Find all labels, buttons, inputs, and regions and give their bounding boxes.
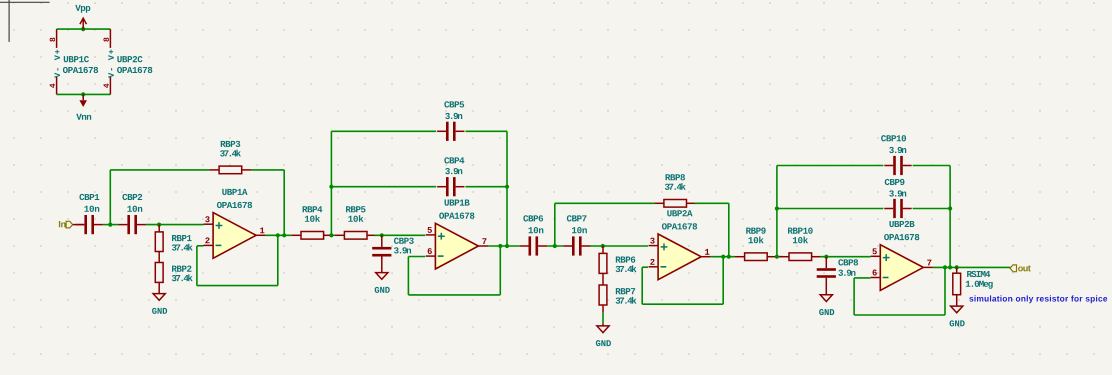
wire UBP1B output: [488, 245, 520, 247]
wire node A up to RBP3: [110, 170, 209, 225]
label UBP1B: [445, 200, 470, 206]
node O (RBP9/RBP10/feedback): [775, 255, 779, 259]
pin 5 (+ input of UBP2B): [871, 248, 881, 256]
wire CBP6 to CBP7: [547, 245, 563, 247]
pin CBP3 bottom: [381, 257, 383, 273]
node P (CBP8 tap): [824, 255, 828, 259]
pin RBP6 top: [602, 246, 604, 253]
op-amp power unit UBP1C pin 4 (V-): [50, 68, 60, 94]
node A (CBP1/CBP2/RBP3): [108, 223, 112, 227]
value OPA1678 (UBP1C): [63, 67, 98, 73]
label GND (CBP3): [375, 287, 390, 293]
wire node K up to RBP8: [555, 203, 654, 246]
pin 6 (- input of UBP2B): [871, 270, 881, 278]
node C (output UBP1A / loop): [276, 233, 280, 237]
ground (RSIM4): [951, 306, 963, 313]
label RBP5: [346, 206, 366, 212]
label UBP1A: [222, 189, 247, 195]
wire UBP2A output: [711, 256, 735, 258]
capacitor CBP10 3.9n: [884, 156, 911, 175]
pin 1 (output of UBP1A): [256, 228, 266, 236]
value 10n (CBP6): [529, 227, 544, 233]
node Vpp junction: [81, 27, 85, 31]
pin 1 (output of UBP2A): [701, 249, 711, 257]
wire CBP9 row left: [777, 208, 884, 210]
op-amp UBP2A: [658, 234, 701, 280]
value 10k (RBP4): [305, 215, 320, 222]
wire RBP7 to GND: [602, 313, 604, 324]
wire CBP5 row right: [466, 131, 508, 246]
value OPA1678 (UBP1B): [439, 213, 474, 219]
pin 7 (output of UBP2B): [923, 260, 933, 268]
label UBP1C: [64, 56, 89, 62]
wire UBP2A inverting loop: [642, 257, 723, 305]
label RBP4: [303, 206, 323, 212]
note simulation only resistor for spice: [969, 295, 1107, 303]
value 3.9n (CBP3): [394, 247, 411, 253]
label CBP8: [838, 259, 858, 265]
label CBP9: [885, 179, 905, 185]
value OPA1678 (UBP1A): [217, 202, 252, 208]
pin 7 (output of UBP1B): [478, 238, 488, 246]
power flag Vpp: [80, 18, 87, 29]
capacitor CBP9 3.9n: [884, 199, 911, 218]
op-amp UBP2B: [880, 245, 923, 291]
wire V+ rail: [57, 28, 111, 30]
label Vnn: [76, 114, 91, 120]
global label In: [59, 221, 73, 228]
wire CBP2 to op-amp UBP1A: [146, 224, 204, 226]
pin RBP2 bottom: [158, 282, 160, 293]
wire RBP6 to RBP7: [602, 273, 604, 285]
value 37.4k (RBP1): [172, 244, 193, 251]
label GND (RSIM4): [950, 320, 965, 326]
wire In to CBP1: [73, 224, 84, 226]
wire CBP4 row left: [331, 186, 436, 188]
value 10n (CBP1): [84, 206, 99, 212]
value 10k (RBP5): [348, 215, 363, 222]
pin 3 (+ input of UBP1A): [204, 216, 214, 224]
node T (output / feedback): [948, 265, 952, 269]
op-amp power unit UBP2C pin 4 (V-): [104, 68, 114, 94]
node M (output UBP2A / loop): [721, 255, 725, 259]
node K (RBP8 tap): [553, 244, 557, 248]
resistor RSIM4 1.0Meg: [953, 273, 961, 295]
node U (output / RSIM4): [955, 265, 959, 269]
wire UBP1B inverting loop: [408, 246, 500, 295]
wire UBP1A inverting loop: [197, 235, 278, 285]
label CBP2: [122, 194, 142, 200]
value 3.9n (CBP4): [445, 168, 462, 174]
pin 6 (- input of UBP1B): [426, 248, 436, 256]
wire node O up (feedback riser): [776, 166, 778, 257]
wire RBP9 to RBP10: [777, 256, 783, 258]
ground (RBP6/RBP7): [597, 326, 609, 333]
resistor RBP3 37.4k: [209, 166, 251, 174]
pin 5 (+ input of UBP1B): [426, 227, 436, 235]
wire CBP7 to op-amp UBP2A: [590, 245, 648, 247]
resistor RBP2 37.4k: [155, 263, 163, 283]
ground (CBP3): [376, 273, 388, 280]
wire CBP10 row left: [777, 165, 884, 167]
value 3.9n (CBP10): [889, 147, 906, 153]
pin RBP1 top: [158, 225, 160, 232]
sheet origin marker: [0, 0, 50, 42]
resistor RBP7 37.4k: [599, 285, 607, 305]
label CBP5: [444, 101, 464, 107]
resistor RBP6 37.4k: [599, 253, 607, 273]
wire CBP10 row right: [913, 166, 951, 268]
value 3.9n (CBP8): [838, 270, 855, 276]
op-amp power unit U BP1C pin 8 (V+): [50, 29, 60, 60]
value 10k (RBP10): [793, 237, 808, 244]
capacitor CBP5 3.9n: [437, 122, 464, 141]
node S (output / loop): [943, 265, 947, 269]
resistor RBP4 10k: [291, 232, 333, 240]
wire UBP2B output: [933, 266, 1010, 268]
label UBP2A: [667, 210, 692, 216]
node L (RBP6 tap): [601, 244, 605, 248]
op-amp UBP1A: [213, 213, 256, 259]
label CBP3: [394, 238, 414, 244]
wire CBP9 row right: [913, 208, 951, 210]
node R (CBP9 row right): [948, 206, 952, 210]
wire UBP1A output: [266, 234, 292, 236]
label RBP7: [616, 288, 635, 294]
value 37.4k (RBP2): [172, 274, 193, 281]
capacitor CBP6 10n: [520, 236, 547, 255]
label UBP2C: [117, 56, 142, 62]
label RBP6: [616, 256, 635, 262]
wire RBP10 to op-amp UBP2B: [820, 256, 871, 258]
power flag Vnn: [79, 94, 87, 107]
pin 2 (- input of UBP2A): [649, 259, 659, 267]
ground (RBP1/RBP2): [153, 294, 165, 301]
pin RSIM4 top: [956, 267, 958, 273]
op-amp power unit UBP2C pin 8 (V+): [103, 29, 113, 60]
value 37.4k (RBP8): [665, 183, 686, 190]
node Q (CBP9 row left): [775, 206, 779, 210]
resistor RBP10 10k: [779, 253, 821, 261]
wire CBP1 to CBP2: [103, 224, 119, 226]
value OPA1678 (UBP2C): [117, 67, 152, 73]
resistor RBP1 37.4k: [155, 232, 163, 252]
wire RBP1 to RBP2: [158, 252, 160, 263]
wire V- rail: [57, 93, 111, 95]
label RBP3: [221, 141, 241, 147]
resistor RBP8 37.4k: [654, 200, 696, 208]
wire RBP4 to RBP5: [331, 234, 334, 236]
wire RBP5 to op-amp UBP1B: [374, 234, 425, 236]
value 3.9n (CBP5): [445, 113, 462, 119]
label CBP1: [79, 194, 99, 200]
value 10n (CBP2): [127, 206, 142, 212]
label CBP7: [567, 215, 587, 221]
node J (output UBP1B / feedback): [505, 244, 509, 248]
label Vpp: [75, 5, 90, 13]
pin RBP7 bottom: [602, 305, 604, 313]
resistor RBP9 10k: [735, 253, 777, 261]
wire RBP3 to output node: [251, 170, 284, 235]
wire node E up (feedback riser): [330, 131, 332, 235]
node I (output UBP1B / loop): [498, 244, 502, 248]
wire CBP5 row left: [331, 130, 436, 132]
node N (output UBP2A / RBP8): [727, 255, 731, 259]
value OPA1678 (UBP2B): [884, 234, 919, 240]
label GND (RBP1/RBP2): [152, 308, 167, 314]
ground (CBP8): [820, 295, 832, 302]
label UBP2B: [889, 221, 914, 227]
pin CBP8 bottom: [825, 278, 827, 295]
value 37.4k (RBP3): [220, 150, 241, 157]
value 10k (RBP9): [749, 237, 764, 244]
wire UBP2B inverting loop: [854, 267, 945, 315]
global label out: [1010, 265, 1031, 272]
label RBP2: [172, 266, 191, 272]
label CBP4: [444, 157, 464, 163]
label RBP8: [666, 174, 685, 180]
pin RSIM4 bottom: [956, 295, 958, 306]
capacitor CBP8 3.9n: [817, 257, 836, 278]
resistor RBP5 10k: [335, 232, 377, 240]
label RSIM4: [967, 271, 990, 277]
op-amp UBP1B: [435, 223, 478, 269]
node B (RBP1 tap): [157, 223, 161, 227]
pin GND stub: [602, 323, 604, 326]
label CBP10: [881, 135, 906, 141]
value OPA1678 (UBP2A): [662, 223, 697, 229]
label RBP10: [788, 228, 813, 234]
node Vnn junction: [81, 92, 85, 96]
label GND (CBP8): [819, 309, 834, 315]
label RBP9: [746, 228, 765, 234]
value 37.4k (RBP6): [616, 265, 637, 272]
label CBP6: [523, 215, 543, 221]
capacitor CBP7 10n: [563, 236, 590, 255]
value 10n (CBP7): [572, 227, 587, 233]
node D (output UBP1A / RBP3): [282, 233, 286, 237]
capacitor CBP4 3.9n: [437, 177, 464, 196]
value 1.0Meg (RSIM4): [966, 281, 993, 289]
capacitor CBP2 10n: [119, 215, 146, 234]
pin 3 (+ input of UBP2A): [649, 238, 659, 246]
wire RBP8 to output node: [694, 203, 729, 256]
node G (CBP4 row left): [329, 185, 333, 189]
value 37.4k (RBP7): [616, 297, 637, 304]
capacitor CBP1 10n: [76, 215, 103, 234]
capacitor CBP3 3.9n: [372, 235, 391, 256]
wire CBP4 row right: [466, 186, 508, 188]
node E (RBP4/RBP5/feedback): [329, 233, 333, 237]
node H (CBP4 row right): [505, 185, 509, 189]
value 3.9n (CBP9): [889, 190, 906, 196]
label GND (RBP6/RBP7): [596, 340, 611, 346]
label RBP1: [172, 235, 192, 241]
pin 2 (- input of UBP1A): [204, 237, 214, 245]
node F (CBP3 tap): [380, 233, 384, 237]
